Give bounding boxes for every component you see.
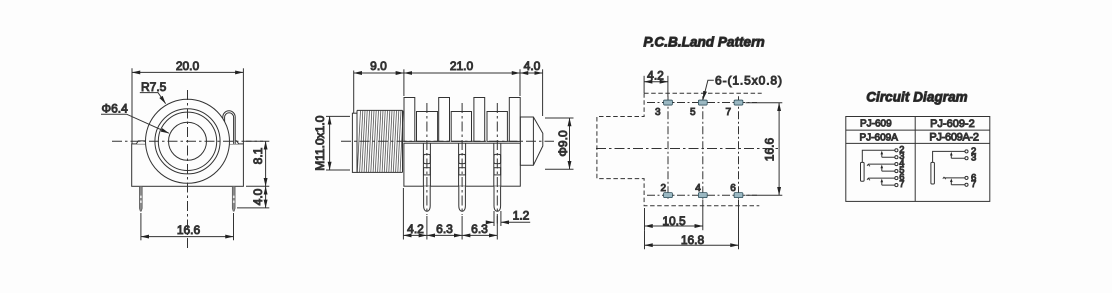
pad column centerline 1 — [667, 96, 669, 201]
svg-text:M11.0x1.0: M11.0x1.0 — [313, 115, 327, 170]
pad 2 — [664, 193, 673, 198]
left pin 6 circle — [895, 177, 898, 180]
body top tab 2 — [439, 98, 450, 142]
dimension dia 9.0 right — [545, 118, 574, 169]
hole circle dia 6.4 — [169, 122, 207, 160]
pin 2 below body — [459, 186, 466, 211]
right pin 7 circle — [965, 183, 968, 186]
svg-text:4.0: 4.0 — [524, 59, 541, 73]
end cap cone — [520, 117, 542, 165]
left tick contact pin4 — [867, 164, 870, 166]
dimension 4.2 — [644, 68, 668, 97]
svg-text:4.0: 4.0 — [251, 188, 265, 205]
label R7.5 with leader — [140, 80, 167, 104]
lower body block — [404, 143, 520, 186]
right pin holes — [233, 196, 235, 198]
upper block between tabs 1-2 — [417, 112, 438, 142]
bottom dimension 4.2 — [403, 188, 426, 240]
pin3 centerline — [496, 103, 498, 224]
body top tab 3 — [474, 98, 485, 142]
svg-text:7: 7 — [971, 179, 976, 190]
dimension 10.5 — [645, 200, 703, 231]
pin 1 slot lines in body — [423, 143, 430, 186]
ring circle inner — [158, 112, 216, 170]
pad 5 — [698, 100, 707, 105]
svg-text:20.0: 20.0 — [176, 59, 200, 73]
pad 7 — [734, 100, 743, 105]
dimension 4.0 top — [520, 59, 543, 116]
left pin 2 circle — [895, 149, 898, 152]
upper block between tabs 2-3 — [451, 112, 471, 142]
dimension 20.0 — [132, 59, 243, 143]
svg-text:10.5: 10.5 — [662, 214, 686, 228]
outer circle R7.5 — [146, 99, 230, 183]
svg-text:21.0: 21.0 — [450, 59, 474, 73]
vertical centerline — [187, 90, 189, 248]
svg-text:P.C.B.Land Pattern: P.C.B.Land Pattern — [643, 35, 764, 50]
svg-text:2: 2 — [660, 183, 666, 194]
right pin 3 circle — [965, 157, 968, 160]
pin1 centerline — [426, 103, 428, 215]
table outer border — [846, 117, 990, 202]
bottom pad row centerline — [647, 194, 757, 196]
right tick contact pin6 — [943, 177, 946, 179]
pad 6 — [734, 193, 743, 198]
svg-text:5: 5 — [690, 107, 696, 118]
pad 3 — [664, 100, 673, 105]
dimension 16.6 right — [746, 103, 783, 195]
pad 4 — [698, 193, 707, 198]
left top bump tab — [136, 141, 146, 144]
left tick contact pin6 — [867, 178, 870, 180]
right pin 6 circle — [965, 176, 968, 179]
ring circle outer — [155, 109, 220, 174]
dimension 1.2 pin width — [486, 209, 530, 227]
washer flange — [352, 113, 357, 172]
pin 1 below body — [424, 186, 431, 211]
svg-text:16.6: 16.6 — [177, 223, 201, 237]
svg-text:3: 3 — [971, 153, 976, 164]
threaded bushing M11 — [357, 110, 403, 172]
left schematic wire sleeve to pin2 — [862, 150, 895, 162]
pin 3 below body — [494, 186, 501, 211]
dimension M11.0x1.0 — [313, 115, 350, 170]
svg-text:4: 4 — [695, 183, 701, 194]
left switch arrow to pin7 — [881, 179, 884, 183]
svg-text:PJ-609: PJ-609 — [860, 118, 892, 129]
svg-text:6.3: 6.3 — [436, 222, 453, 236]
left switch arrow to pin5 — [881, 165, 884, 169]
table column divider — [914, 117, 916, 202]
svg-text:Φ6.4: Φ6.4 — [102, 102, 129, 116]
left pin 7 circle — [895, 184, 898, 187]
dimension 16.6 — [141, 213, 234, 240]
right side loop tab — [223, 111, 235, 144]
pin2 centerline — [461, 103, 463, 215]
pin 1 hole details — [424, 154, 431, 175]
left pin 3 circle — [895, 156, 898, 159]
right pin 2 circle — [965, 150, 968, 153]
svg-text:8.1: 8.1 — [251, 147, 265, 164]
svg-text:6: 6 — [730, 183, 736, 194]
jack body front rectangle — [132, 144, 244, 186]
body top tab 4 — [509, 98, 520, 142]
horizontal centerline — [341, 140, 554, 142]
svg-text:9.0: 9.0 — [370, 59, 387, 73]
left switch arrow to pin3 — [881, 151, 884, 155]
pad column centerline 2 — [702, 96, 704, 201]
svg-text:Φ9.0: Φ9.0 — [556, 130, 570, 157]
svg-text:7: 7 — [725, 107, 731, 118]
svg-text:16.8: 16.8 — [681, 233, 705, 247]
upper block between tabs 3-4 — [487, 112, 507, 142]
horizontal centerline — [112, 140, 263, 142]
svg-text:6-(1.5x0.8): 6-(1.5x0.8) — [715, 73, 782, 87]
dimension 4.0 — [237, 186, 269, 208]
svg-text:1.2: 1.2 — [513, 209, 530, 223]
left schematic sleeve bar — [861, 162, 865, 181]
pin 3 slot lines in body — [494, 143, 501, 186]
svg-text:4.2: 4.2 — [647, 68, 664, 82]
bottom dimension 6.3 first — [427, 216, 462, 240]
label 6-(1.5x0.8) with leader — [703, 73, 782, 99]
left pin 5 circle — [895, 170, 898, 173]
left pin 4 circle — [895, 163, 898, 166]
svg-text:16.6: 16.6 — [763, 137, 777, 161]
top pad row centerline — [647, 102, 757, 104]
svg-text:PJ-609A-2: PJ-609A-2 — [929, 132, 979, 144]
right schematic sleeve bar — [931, 162, 935, 184]
dimension 21.0 — [404, 59, 520, 96]
left pin — [139, 186, 142, 211]
right top bump tab — [229, 141, 239, 144]
table row line 1 — [846, 129, 990, 131]
svg-text:R7.5: R7.5 — [141, 80, 167, 94]
pin 2 slot lines in body — [459, 143, 466, 186]
pad column centerline 3 — [738, 96, 740, 201]
right schematic wire sleeve to pin2 — [933, 151, 965, 162]
svg-text:6.3: 6.3 — [471, 222, 488, 236]
dimension 9.0 — [354, 59, 404, 113]
left pin holes — [140, 196, 142, 198]
svg-text:PJ-609-2: PJ-609-2 — [930, 118, 975, 130]
pin 3 hole details — [494, 154, 501, 175]
bottom dimension 6.3 second — [462, 216, 497, 240]
right switch arrow to pin7 — [950, 178, 953, 182]
table row line 2 — [846, 142, 990, 144]
right pin — [232, 186, 235, 211]
svg-text:4.2: 4.2 — [407, 222, 424, 236]
svg-text:PJ-609A: PJ-609A — [860, 133, 899, 144]
dimension 16.8 — [645, 200, 739, 250]
main horizontal centerline — [596, 148, 781, 150]
dimension 8.1 — [246, 141, 269, 186]
dashed footprint outline — [597, 93, 762, 206]
pin 2 hole details — [459, 154, 466, 175]
svg-text:Circuit Diagram: Circuit Diagram — [866, 90, 967, 105]
svg-text:3: 3 — [655, 107, 661, 118]
right switch arrow to pin3 — [950, 152, 953, 156]
body top tab 1 — [404, 98, 415, 142]
label dia 6.4 with leader — [101, 102, 169, 134]
svg-text:7: 7 — [899, 179, 904, 189]
